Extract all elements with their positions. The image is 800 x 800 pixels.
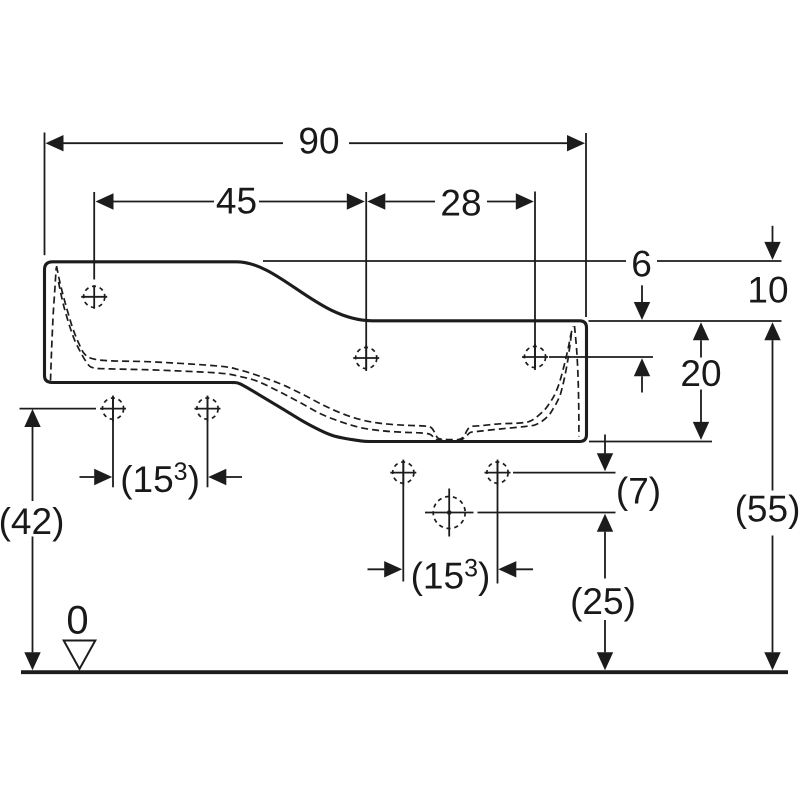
dimension (15^3) left: arrows — [80, 469, 243, 485]
dimension 90: left extension line — [44, 133, 46, 256]
top surface reference line (dim 10 upper boundary, holds label 6) — [263, 260, 782, 262]
svg-text:10: 10 — [747, 270, 788, 311]
dimension 90: line — [46, 135, 586, 151]
svg-text:45: 45 — [216, 180, 257, 221]
hidden inner bowl contour: upper dashed line with drain recess — [57, 266, 574, 440]
svg-text:6: 6 — [631, 244, 652, 285]
dimension 6: upper arrow — [634, 285, 650, 320]
extension line at 45/28 junction — [365, 192, 367, 369]
extension line left hole 1 — [112, 397, 114, 488]
svg-text:20: 20 — [680, 353, 721, 394]
svg-text:(153): (153) — [120, 458, 200, 500]
fixing hole right — [522, 344, 548, 370]
wall fixing hole left 1 — [100, 396, 126, 422]
dimension 20: line with arrows — [693, 322, 709, 440]
hidden contour: right near-vertical edge — [575, 326, 579, 437]
drain reference line — [478, 512, 616, 514]
extension line at hole 28 right — [534, 192, 536, 369]
svg-text:90: 90 — [298, 121, 339, 162]
dimension 6: lower arrow — [634, 358, 650, 392]
svg-text:0: 0 — [66, 599, 88, 643]
svg-text:(25): (25) — [570, 581, 636, 622]
svg-text:(153): (153) — [411, 555, 491, 597]
svg-text:28: 28 — [440, 183, 481, 224]
svg-text:(7): (7) — [616, 471, 661, 512]
left hole reference line — [20, 408, 97, 410]
svg-text:(42): (42) — [0, 501, 64, 542]
hidden inner bowl contour: lower dashed line — [59, 282, 572, 441]
wall fixing hole bottom 2 — [485, 460, 511, 486]
floor line — [21, 670, 788, 674]
reference line at shelf hole level — [549, 356, 653, 358]
underside reference line extension — [589, 441, 712, 443]
drain outlet (dashed circle with center mark) — [425, 489, 474, 537]
dimension (42): line with arrows — [24, 409, 40, 670]
shelf surface reference line extension — [589, 320, 782, 322]
fixing hole middle — [353, 345, 379, 371]
svg-text:(55): (55) — [735, 488, 800, 529]
extension line bottom hole 1 — [402, 461, 404, 582]
dimension 90: right extension line — [585, 133, 587, 317]
lower hole reference line — [513, 472, 616, 474]
dimension 45: line — [96, 193, 365, 209]
wall fixing hole left 2 — [195, 396, 221, 422]
datum zero symbol (open triangle) — [64, 641, 96, 670]
dimension (55): line with arrows — [764, 322, 780, 670]
washbasin outer outline — [45, 262, 587, 442]
dimension 10: upper arrow — [764, 226, 780, 260]
dimension (7): upper arrow — [597, 435, 613, 472]
extension line at hole 45 left — [93, 192, 95, 280]
wall fixing hole bottom 1 — [390, 460, 416, 486]
fixing hole top-left — [81, 285, 107, 309]
extension line bottom hole 2 — [497, 461, 499, 584]
dimension (25): line with arrows — [597, 514, 613, 671]
dimension (15^3) bottom: arrows — [368, 561, 534, 577]
dimension 28: line — [367, 193, 534, 209]
hidden contour: left spike edge — [51, 268, 57, 381]
extension line left hole 2 — [207, 397, 209, 488]
